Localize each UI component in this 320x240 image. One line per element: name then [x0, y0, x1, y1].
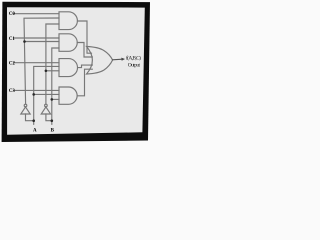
inverter U7 bubble	[45, 104, 48, 107]
black border frame (slightly skewed as in scan)	[2, 2, 150, 142]
wire A branch to G4	[34, 93, 59, 95]
svg-text:C3: C3	[9, 89, 16, 94]
wire A' branch to G2	[25, 41, 60, 43]
wire A' vertical (inverter1 output up to G1)	[24, 18, 59, 104]
and-gate U1	[59, 12, 77, 30]
wire G1 output to OR	[78, 21, 92, 53]
svg-text:C2: C2	[9, 62, 16, 67]
svg-text:C0: C0	[9, 12, 16, 17]
svg-text:Output: Output	[128, 62, 141, 68]
junction dot B input	[51, 119, 54, 122]
and-gate U3	[59, 59, 78, 77]
and-gate U4	[59, 87, 77, 104]
wire C3 to G4	[14, 89, 60, 91]
svg-text:C1: C1	[9, 37, 16, 42]
svg-text:A: A	[33, 129, 37, 134]
wire G3 output to OR	[78, 65, 93, 68]
output arrowhead	[121, 58, 125, 61]
wire B vertical (input B up to G2)	[52, 48, 59, 124]
output arrow line	[113, 58, 123, 61]
junction dot B' to G3	[45, 70, 48, 73]
wire G4 output to OR	[77, 69, 92, 96]
and-gate U2	[59, 34, 77, 52]
wire C1 to G2	[14, 37, 60, 39]
inverter U6 bubble	[24, 104, 27, 107]
junction dot A input	[32, 119, 35, 122]
wire C2 to G3	[14, 62, 60, 64]
inverter U6 triangle	[21, 107, 30, 114]
inverter U7 triangle	[41, 107, 50, 114]
page background	[0, 0, 152, 144]
wire B branch to G4	[52, 98, 59, 100]
wire B' branch to G3	[46, 70, 59, 72]
wire B' vertical (inverter2 output up to G1)	[46, 24, 59, 104]
svg-text:f(A,B,C): f(A,B,C)	[126, 55, 141, 62]
wire A vertical (input A up to G3)	[34, 66, 59, 124]
inner gray panel	[7, 7, 145, 135]
wire G2 output to OR	[77, 43, 92, 58]
wire C0 to G1	[14, 13, 60, 15]
junction dot A' to G2	[23, 40, 26, 43]
junction dot B to G4	[51, 98, 54, 101]
wire inverter2 input stub	[46, 114, 52, 121]
junction dot A to G4	[32, 93, 35, 96]
wire inverter1 input stub	[26, 114, 34, 121]
or-gate U5	[87, 47, 113, 75]
